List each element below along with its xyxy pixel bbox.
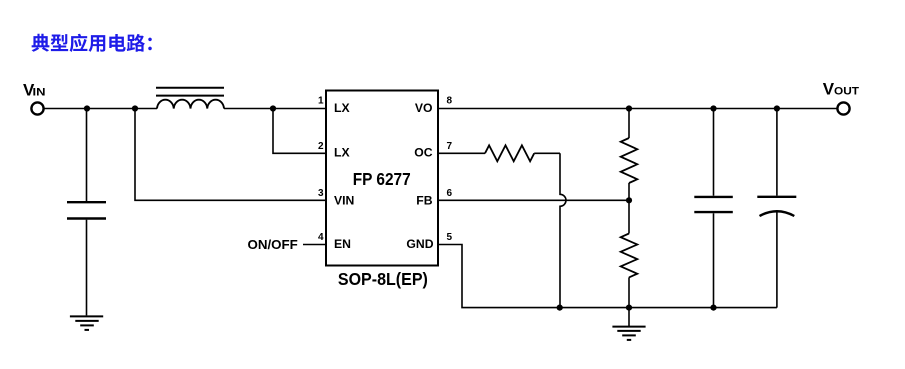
svg-text:FB: FB: [416, 194, 432, 208]
svg-text:7: 7: [447, 141, 453, 152]
wire FB rail: [438, 199, 629, 201]
svg-text:VO: VO: [415, 101, 433, 115]
svg-text:EN: EN: [334, 237, 351, 251]
wire VIN node to pin 3: [135, 109, 326, 201]
terminal VIN: [31, 102, 43, 114]
junction node OC bottom: [557, 305, 563, 311]
wire bottom rail: [560, 307, 777, 309]
svg-text:1: 1: [318, 96, 324, 107]
wire ON/OFF to pin 4: [303, 244, 326, 246]
wire VO rail: [438, 108, 837, 110]
wire GND pin 5 to bottom rail: [438, 245, 560, 308]
junction node C2 top: [710, 105, 716, 111]
inductor L1: [156, 88, 224, 109]
junction node input cap: [84, 105, 90, 111]
title 典型应用电路: [32, 34, 152, 52]
svg-text:ON/OFF: ON/OFF: [248, 238, 299, 252]
svg-text:OUT: OUT: [834, 86, 859, 98]
junction node C2 bottom: [710, 305, 716, 311]
wire LX node to pin 2: [273, 109, 326, 154]
svg-text:OC: OC: [414, 146, 432, 160]
svg-text:8: 8: [447, 96, 453, 107]
wire input rail left: [44, 108, 157, 110]
svg-text:LX: LX: [334, 101, 350, 115]
resistor R2 (upper divider): [621, 109, 638, 201]
op-amp U1 chip body FP6277: [326, 91, 438, 266]
junction node FB divider: [626, 197, 632, 203]
resistor R3 (lower divider): [621, 200, 638, 326]
svg-text:3: 3: [318, 188, 324, 199]
svg-text:2: 2: [318, 141, 324, 152]
svg-text:FP 6277: FP 6277: [353, 169, 411, 189]
capacitor C3 (output electrolytic): [757, 109, 796, 308]
ground (input cap): [70, 316, 103, 330]
wire inductor to chip: [224, 108, 326, 110]
junction node divider bottom: [626, 305, 632, 311]
junction node C3 top: [774, 105, 780, 111]
svg-text:4: 4: [318, 232, 324, 243]
junction node VIN pin3: [132, 105, 138, 111]
terminal VOUT: [837, 102, 849, 114]
svg-text:GND: GND: [406, 237, 433, 251]
svg-text:IN: IN: [33, 86, 46, 98]
junction node LX pin2: [270, 105, 276, 111]
resistor R1 (OC): [438, 145, 560, 161]
capacitor C2 (output): [694, 109, 733, 308]
svg-text:LX: LX: [334, 146, 350, 160]
svg-text:6: 6: [447, 188, 453, 199]
svg-text:V: V: [823, 80, 835, 99]
svg-text:VIN: VIN: [334, 194, 354, 208]
ground (divider): [612, 327, 645, 340]
capacitor C1 (input): [67, 109, 106, 316]
svg-text:SOP-8L(EP): SOP-8L(EP): [338, 269, 428, 289]
svg-text:5: 5: [447, 232, 453, 243]
wire OC down with hop over FB: [560, 153, 566, 307]
junction node divider top: [626, 105, 632, 111]
